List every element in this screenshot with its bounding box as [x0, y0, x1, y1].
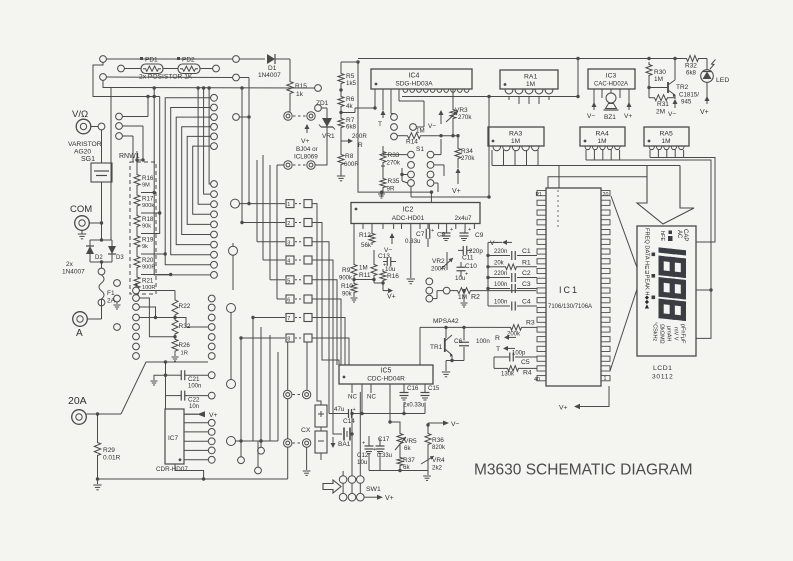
- svg-text:mV V: mV V: [673, 327, 679, 341]
- wire fan 2: [171, 108, 211, 255]
- capacitor C11 220p: [458, 246, 483, 262]
- IC4 box: [371, 69, 472, 89]
- label 2x 1N4007: [62, 261, 85, 276]
- svg-text:NC: NC: [367, 394, 376, 401]
- LCD annunciators right: [652, 322, 686, 344]
- svg-text:900k: 900k: [339, 276, 353, 282]
- wire fan 11: [141, 97, 160, 234]
- svg-text:2k2: 2k2: [432, 465, 443, 472]
- ground R29: [93, 479, 101, 490]
- switch SW1 pole A3: [357, 476, 365, 484]
- svg-text:C15: C15: [428, 385, 440, 392]
- svg-text:R: R: [358, 142, 363, 149]
- wire sq5 out: [312, 280, 337, 365]
- wire ltrunk x258: [257, 441, 259, 467]
- junction dot bus96: [153, 95, 156, 98]
- varistor SG1 box: [91, 145, 112, 219]
- wire sq1 out: [312, 204, 321, 405]
- wire fan 5: [187, 136, 210, 224]
- capacitor C14 47u: [334, 406, 356, 425]
- switch S1 contact R2: [427, 162, 434, 169]
- wire chain top: [341, 60, 360, 71]
- switch pole 3: [286, 238, 312, 247]
- resistor R2 1M: [450, 288, 536, 301]
- label BJ04: [294, 146, 318, 161]
- svg-text:CX: CX: [301, 427, 311, 434]
- svg-text:CDR-HD07: CDR-HD07: [156, 466, 188, 473]
- node contact f1: [114, 280, 121, 287]
- svg-text:1k: 1k: [296, 91, 304, 98]
- node top-left B: [100, 74, 107, 81]
- wire trunk x242: [240, 88, 285, 224]
- node ic2 o1: [426, 278, 433, 285]
- wire vr3: [451, 121, 454, 137]
- wire sq6 out: [312, 299, 341, 365]
- terminal pair T2: [277, 161, 315, 169]
- wire R29 down: [96, 458, 99, 481]
- svg-text:VR1: VR1: [322, 133, 335, 140]
- label RNW1: [119, 153, 140, 160]
- IC1 inner line: [557, 190, 559, 228]
- wire sw1 col1: [342, 471, 344, 494]
- svg-text:R36: R36: [432, 437, 444, 444]
- resistor R7: [338, 116, 357, 131]
- IC3 pins: [594, 89, 629, 104]
- svg-text:IC1: IC1: [559, 285, 579, 295]
- svg-text:FREQ DATA H⊑⊒PEAK H◆◆◀: FREQ DATA H⊑⊒PEAK H◆◆◀: [644, 228, 650, 309]
- svg-text:R31: R31: [657, 101, 669, 108]
- svg-text:°CSkHz: °CSkHz: [652, 322, 658, 342]
- resistor R15: [287, 79, 308, 98]
- LCD1 outline: [637, 226, 696, 356]
- node mid contact: [233, 114, 251, 121]
- wire diag pin20: [611, 196, 639, 273]
- resistor R22: [172, 297, 191, 317]
- wire R20 to next: [136, 270, 138, 275]
- node left contact 2: [116, 123, 123, 130]
- node switch contact u4: [211, 123, 218, 130]
- wire LCD mid pin: [696, 288, 713, 291]
- svg-text:CDC-HD04R: CDC-HD04R: [367, 376, 405, 383]
- svg-text:R3: R3: [526, 320, 535, 327]
- label CDR-HD07: [156, 466, 188, 473]
- svg-text:+: +: [373, 447, 376, 453]
- svg-text:R21: R21: [142, 278, 154, 285]
- node switch contact u2: [211, 104, 218, 111]
- svg-text:1M: 1M: [511, 138, 520, 145]
- svg-text:220n: 220n: [494, 271, 507, 277]
- node zd b: [315, 105, 322, 112]
- wire vr5 top: [388, 420, 400, 431]
- wire R15 down: [289, 96, 291, 112]
- svg-text:+: +: [353, 407, 356, 413]
- svg-text:R16: R16: [142, 175, 154, 182]
- svg-text:56k: 56k: [361, 242, 372, 249]
- terminal A: [73, 306, 102, 326]
- wire ic4c4: [416, 113, 424, 127]
- svg-text:1M: 1M: [359, 265, 368, 272]
- node bus77: [233, 74, 240, 81]
- wire node D2D3: [90, 219, 112, 240]
- svg-text:4: 4: [287, 259, 290, 265]
- wire r33 r35: [382, 165, 384, 176]
- svg-text:220n: 220n: [494, 249, 507, 255]
- node PD in: [118, 65, 125, 72]
- svg-text:20k: 20k: [494, 260, 505, 266]
- resistor R37: [397, 446, 415, 471]
- svg-text:R12: R12: [359, 232, 371, 239]
- node range contact L7: [133, 343, 140, 350]
- wire sw1 V+: [364, 495, 394, 502]
- resistor array RA3: [488, 127, 544, 146]
- label A: [76, 328, 83, 339]
- ground vr4: [423, 471, 431, 481]
- svg-text:200R: 200R: [352, 133, 367, 140]
- wire ltrunk x261: [259, 327, 262, 447]
- wire r32 stub: [175, 318, 208, 328]
- switch S1 contact L3: [408, 171, 415, 178]
- svg-text:T: T: [378, 121, 382, 128]
- svg-text:V−: V−: [490, 240, 499, 247]
- svg-text:IC3: IC3: [606, 73, 617, 80]
- wire c22 right: [185, 395, 208, 397]
- wire c14 bus: [329, 412, 425, 415]
- label MPSA42: [433, 318, 459, 325]
- node ic2 o3: [426, 295, 433, 302]
- node lt2: [258, 447, 265, 454]
- resistor R16: [134, 172, 154, 189]
- svg-text:V+: V+: [387, 294, 396, 301]
- svg-text:V−: V−: [587, 113, 595, 120]
- RA4 bumps: [585, 146, 620, 150]
- terminal 20A: [72, 410, 87, 425]
- svg-text:ADC-HD01: ADC-HD01: [392, 215, 425, 222]
- wire to R29: [97, 414, 99, 440]
- wire tr2 collector: [673, 57, 676, 80]
- svg-text:IC2: IC2: [403, 207, 414, 214]
- label 20A: [68, 395, 87, 407]
- svg-text:900k: 900k: [142, 203, 154, 209]
- svg-text:AG20: AG20: [74, 149, 91, 156]
- IC1 box: [546, 188, 601, 386]
- node switch contact u3: [211, 114, 218, 121]
- wire ra3 pins: [492, 150, 538, 166]
- node switch contact u6: [211, 143, 218, 150]
- RA1 bumps: [505, 89, 553, 94]
- wire fan 8: [202, 86, 211, 194]
- svg-text:100p: 100p: [512, 351, 526, 357]
- wire top bus right: [358, 57, 684, 60]
- svg-text:M3630 SCHEMATIC DIAGRAM: M3630 SCHEMATIC DIAGRAM: [474, 462, 692, 479]
- svg-text:C8: C8: [437, 232, 446, 239]
- svg-text:A: A: [76, 328, 83, 339]
- node switch contact m9: [211, 261, 218, 268]
- RA5 bumps: [649, 146, 684, 150]
- svg-text:10n: 10n: [189, 404, 199, 410]
- resistor R1 20k: [488, 259, 537, 269]
- capacitor C15: [421, 385, 440, 400]
- svg-text:V+: V+: [559, 405, 568, 412]
- svg-text:C16: C16: [407, 385, 419, 392]
- wire ic2 drop1: [382, 192, 432, 202]
- wire sq7 out: [312, 318, 345, 366]
- svg-text:TR1: TR1: [430, 344, 443, 351]
- svg-text:1M: 1M: [416, 128, 425, 135]
- svg-text:200R: 200R: [431, 266, 446, 273]
- ground ic2mid: [407, 229, 415, 284]
- capacitor C3 100n: [488, 281, 537, 293]
- svg-text:R18: R18: [142, 216, 154, 223]
- svg-text:R32: R32: [685, 63, 697, 70]
- resistor R35: [380, 176, 400, 193]
- svg-text:VR3: VR3: [455, 107, 468, 114]
- wire sq4 out: [312, 260, 337, 434]
- wire r31 left: [649, 97, 652, 99]
- svg-text:R14: R14: [406, 139, 418, 146]
- svg-text:μmAH: μmAH: [666, 326, 672, 341]
- svg-text:100n: 100n: [494, 300, 507, 306]
- label SW1: [366, 486, 381, 493]
- switch SW1 pole B3: [357, 493, 365, 501]
- wire left drop to bus96: [93, 62, 160, 96]
- wire top bus y59: [106, 58, 232, 60]
- svg-text:SG1: SG1: [81, 156, 95, 163]
- wire cx vertical: [287, 342, 289, 479]
- svg-text:130k: 130k: [501, 372, 515, 378]
- svg-text:100n: 100n: [188, 384, 201, 390]
- diode D1: [258, 54, 281, 79]
- switch pole 6: [286, 295, 312, 304]
- arrow T ic4: [378, 110, 386, 128]
- wire ltrunk x270: [269, 335, 271, 441]
- wire tr1 emitter: [446, 355, 452, 371]
- wire s1 bottom bus: [411, 97, 491, 199]
- wire top bus y165: [492, 165, 680, 167]
- wire fan 7: [196, 86, 210, 204]
- svg-text:T: T: [496, 346, 500, 353]
- svg-text:100n: 100n: [494, 282, 507, 288]
- wire ltrunk x253: [251, 316, 254, 441]
- svg-text:BZ1: BZ1: [604, 114, 616, 121]
- supply V+ ic3: [624, 102, 632, 120]
- resistor R4 130k: [494, 366, 537, 378]
- pot VR2: [431, 252, 453, 273]
- svg-text:TR2: TR2: [676, 84, 689, 91]
- posistor PD2: [177, 57, 200, 74]
- switch pole 4: [286, 256, 312, 265]
- svg-text:2x0.33u: 2x0.33u: [403, 403, 424, 409]
- svg-text:RA3: RA3: [509, 131, 522, 138]
- wire c15 down: [424, 403, 426, 414]
- capacitor C7: [405, 224, 434, 248]
- svg-text:F1: F1: [107, 290, 115, 297]
- svg-text:90k: 90k: [342, 292, 353, 298]
- node fuse top: [98, 268, 105, 275]
- resistor array RA5: [644, 127, 689, 146]
- svg-text:1N4007: 1N4007: [62, 269, 85, 276]
- node range contact L3: [133, 304, 140, 311]
- svg-text:PD2: PD2: [182, 57, 195, 64]
- wire sq8 in: [239, 336, 285, 339]
- ground COM: [78, 230, 86, 239]
- title M3630 SCHEMATIC DIAGRAM: [474, 462, 692, 479]
- wire ic7 top: [165, 396, 167, 409]
- wire trunk x257: [257, 160, 285, 242]
- node ic2 o2: [426, 287, 433, 294]
- svg-text:2x: 2x: [66, 261, 74, 268]
- node big3: [227, 304, 236, 380]
- capacitor C12: [357, 436, 374, 466]
- LCD annunciators left: [644, 228, 650, 309]
- resistor R5: [338, 71, 357, 87]
- capacitor C10: [455, 262, 477, 282]
- svg-text:2: 2: [287, 221, 290, 227]
- capacitor C9: [460, 227, 484, 241]
- transistor TR1: [430, 327, 453, 357]
- pointer arrow to LCD: [637, 166, 694, 225]
- svg-text:VR4: VR4: [432, 457, 445, 464]
- svg-text:V−: V−: [668, 111, 676, 118]
- label T arrow: [496, 346, 515, 353]
- posistor PD1: [140, 57, 163, 74]
- node IC7 pin 5: [208, 447, 215, 454]
- wire trunk x263: [263, 155, 285, 260]
- IC1 top wires: [548, 166, 660, 189]
- label COM: [70, 204, 92, 215]
- wire cx2 gnd: [303, 447, 311, 475]
- svg-text:100n: 100n: [476, 338, 490, 345]
- wire s1 wiring1: [383, 146, 408, 155]
- IC3 box: [588, 69, 635, 89]
- resistor network RNW1 dashed box: [130, 162, 156, 294]
- svg-text:R16: R16: [387, 273, 399, 280]
- IC1 pin labels: [534, 192, 608, 383]
- wire sw1 col2: [350, 412, 354, 494]
- svg-text:R4: R4: [523, 370, 532, 377]
- svg-text:R11: R11: [359, 272, 371, 279]
- wire ra1 bus: [504, 96, 554, 98]
- svg-text:RA4: RA4: [596, 131, 609, 138]
- svg-text:SW1: SW1: [366, 486, 381, 493]
- svg-text:1M: 1M: [458, 294, 467, 301]
- svg-text:C1: C1: [522, 248, 531, 255]
- svg-text:LED: LED: [716, 77, 729, 84]
- resistor array RA1: [500, 70, 558, 89]
- wire R19 to next: [136, 250, 138, 255]
- svg-text:0.33u: 0.33u: [377, 453, 392, 459]
- svg-text:C7: C7: [416, 231, 425, 238]
- svg-text:10u: 10u: [357, 459, 368, 466]
- svg-text:1M: 1M: [526, 81, 535, 88]
- node range contact R6: [208, 343, 215, 350]
- svg-text:C13: C13: [378, 253, 390, 260]
- wire fan 9: [207, 86, 210, 184]
- resistor R32b: [172, 316, 191, 337]
- diode D2: [86, 240, 103, 262]
- svg-text:10u: 10u: [385, 266, 396, 273]
- node range contact R4: [208, 324, 215, 331]
- resistor R9: [339, 262, 357, 282]
- resistor R17: [134, 193, 154, 210]
- svg-text:D3: D3: [116, 255, 124, 261]
- switch S1 contact R4: [427, 180, 434, 187]
- buzzer BZ1: [604, 93, 619, 121]
- switch SW1 pole B1: [339, 493, 347, 501]
- svg-text:ΩkΩMΩ: ΩkΩMΩ: [659, 324, 665, 344]
- wire bus y87: [111, 86, 315, 89]
- ground r26: [172, 354, 179, 361]
- IC2 pin stubs: [354, 224, 474, 230]
- node range contact R7: [208, 353, 215, 360]
- zener ZD1: [315, 100, 335, 165]
- label VARISTOR AG20: [68, 141, 102, 163]
- wire fan 4: [182, 127, 211, 235]
- svg-text:1k5: 1k5: [346, 80, 357, 87]
- label LCD1: [653, 365, 672, 372]
- capacitor C17: [373, 436, 390, 454]
- resistor array RA4: [580, 127, 625, 146]
- node ic2 o4: [443, 287, 450, 294]
- wire c21 left: [164, 374, 181, 396]
- node big2: [229, 243, 238, 290]
- fuse F1: [99, 275, 116, 305]
- node c22 out: [208, 392, 215, 399]
- wire tr2 emitter: [668, 95, 678, 118]
- wire rnw junction 3: [141, 252, 167, 255]
- svg-text:8: 8: [287, 337, 290, 343]
- wire base bus 327: [420, 326, 495, 365]
- svg-text:6k8: 6k8: [346, 124, 357, 131]
- svg-text:C4: C4: [522, 299, 531, 306]
- wire RNW1 bottom: [136, 283, 137, 291]
- wire r32 to led: [701, 59, 707, 70]
- svg-text:D1: D1: [268, 65, 277, 72]
- svg-text:C3: C3: [522, 281, 531, 288]
- arrow V- ic4: [428, 110, 444, 130]
- svg-text:BA1: BA1: [338, 441, 351, 448]
- svg-text:VR2: VR2: [432, 258, 445, 265]
- wire bottom join: [369, 454, 428, 473]
- capacitor C5 100p: [494, 351, 537, 367]
- svg-text:C12: C12: [357, 452, 369, 459]
- supply V+ ic2: [383, 283, 396, 301]
- svg-text:hFE: hFE: [659, 231, 665, 241]
- switch S1 contact L4: [408, 180, 415, 187]
- wire s1 wiring5: [411, 183, 438, 197]
- wire diag pin1: [610, 283, 639, 371]
- svg-text:C11: C11: [462, 255, 474, 262]
- svg-text:6k: 6k: [403, 464, 410, 471]
- wire COM right: [89, 221, 103, 224]
- node contact f3: [114, 324, 121, 331]
- node switch contact m3: [211, 201, 218, 208]
- svg-text:VR5: VR5: [404, 438, 417, 445]
- ground r2: [461, 289, 468, 307]
- LCD decimal points: [652, 253, 656, 300]
- svg-text:R: R: [495, 335, 500, 342]
- wire bus77 right: [239, 78, 249, 97]
- svg-text:R1: R1: [522, 259, 531, 266]
- wire sq8 down: [306, 342, 308, 390]
- wire ic2 r9 feed: [354, 229, 374, 262]
- IC7 pin1 dot: [179, 458, 182, 461]
- svg-text:R19: R19: [142, 237, 154, 244]
- svg-text:R37: R37: [403, 457, 415, 464]
- node switch contact m5: [211, 221, 218, 228]
- wire r22 top: [139, 291, 175, 298]
- node switch contact m10: [211, 272, 218, 279]
- svg-text:R34: R34: [461, 148, 473, 155]
